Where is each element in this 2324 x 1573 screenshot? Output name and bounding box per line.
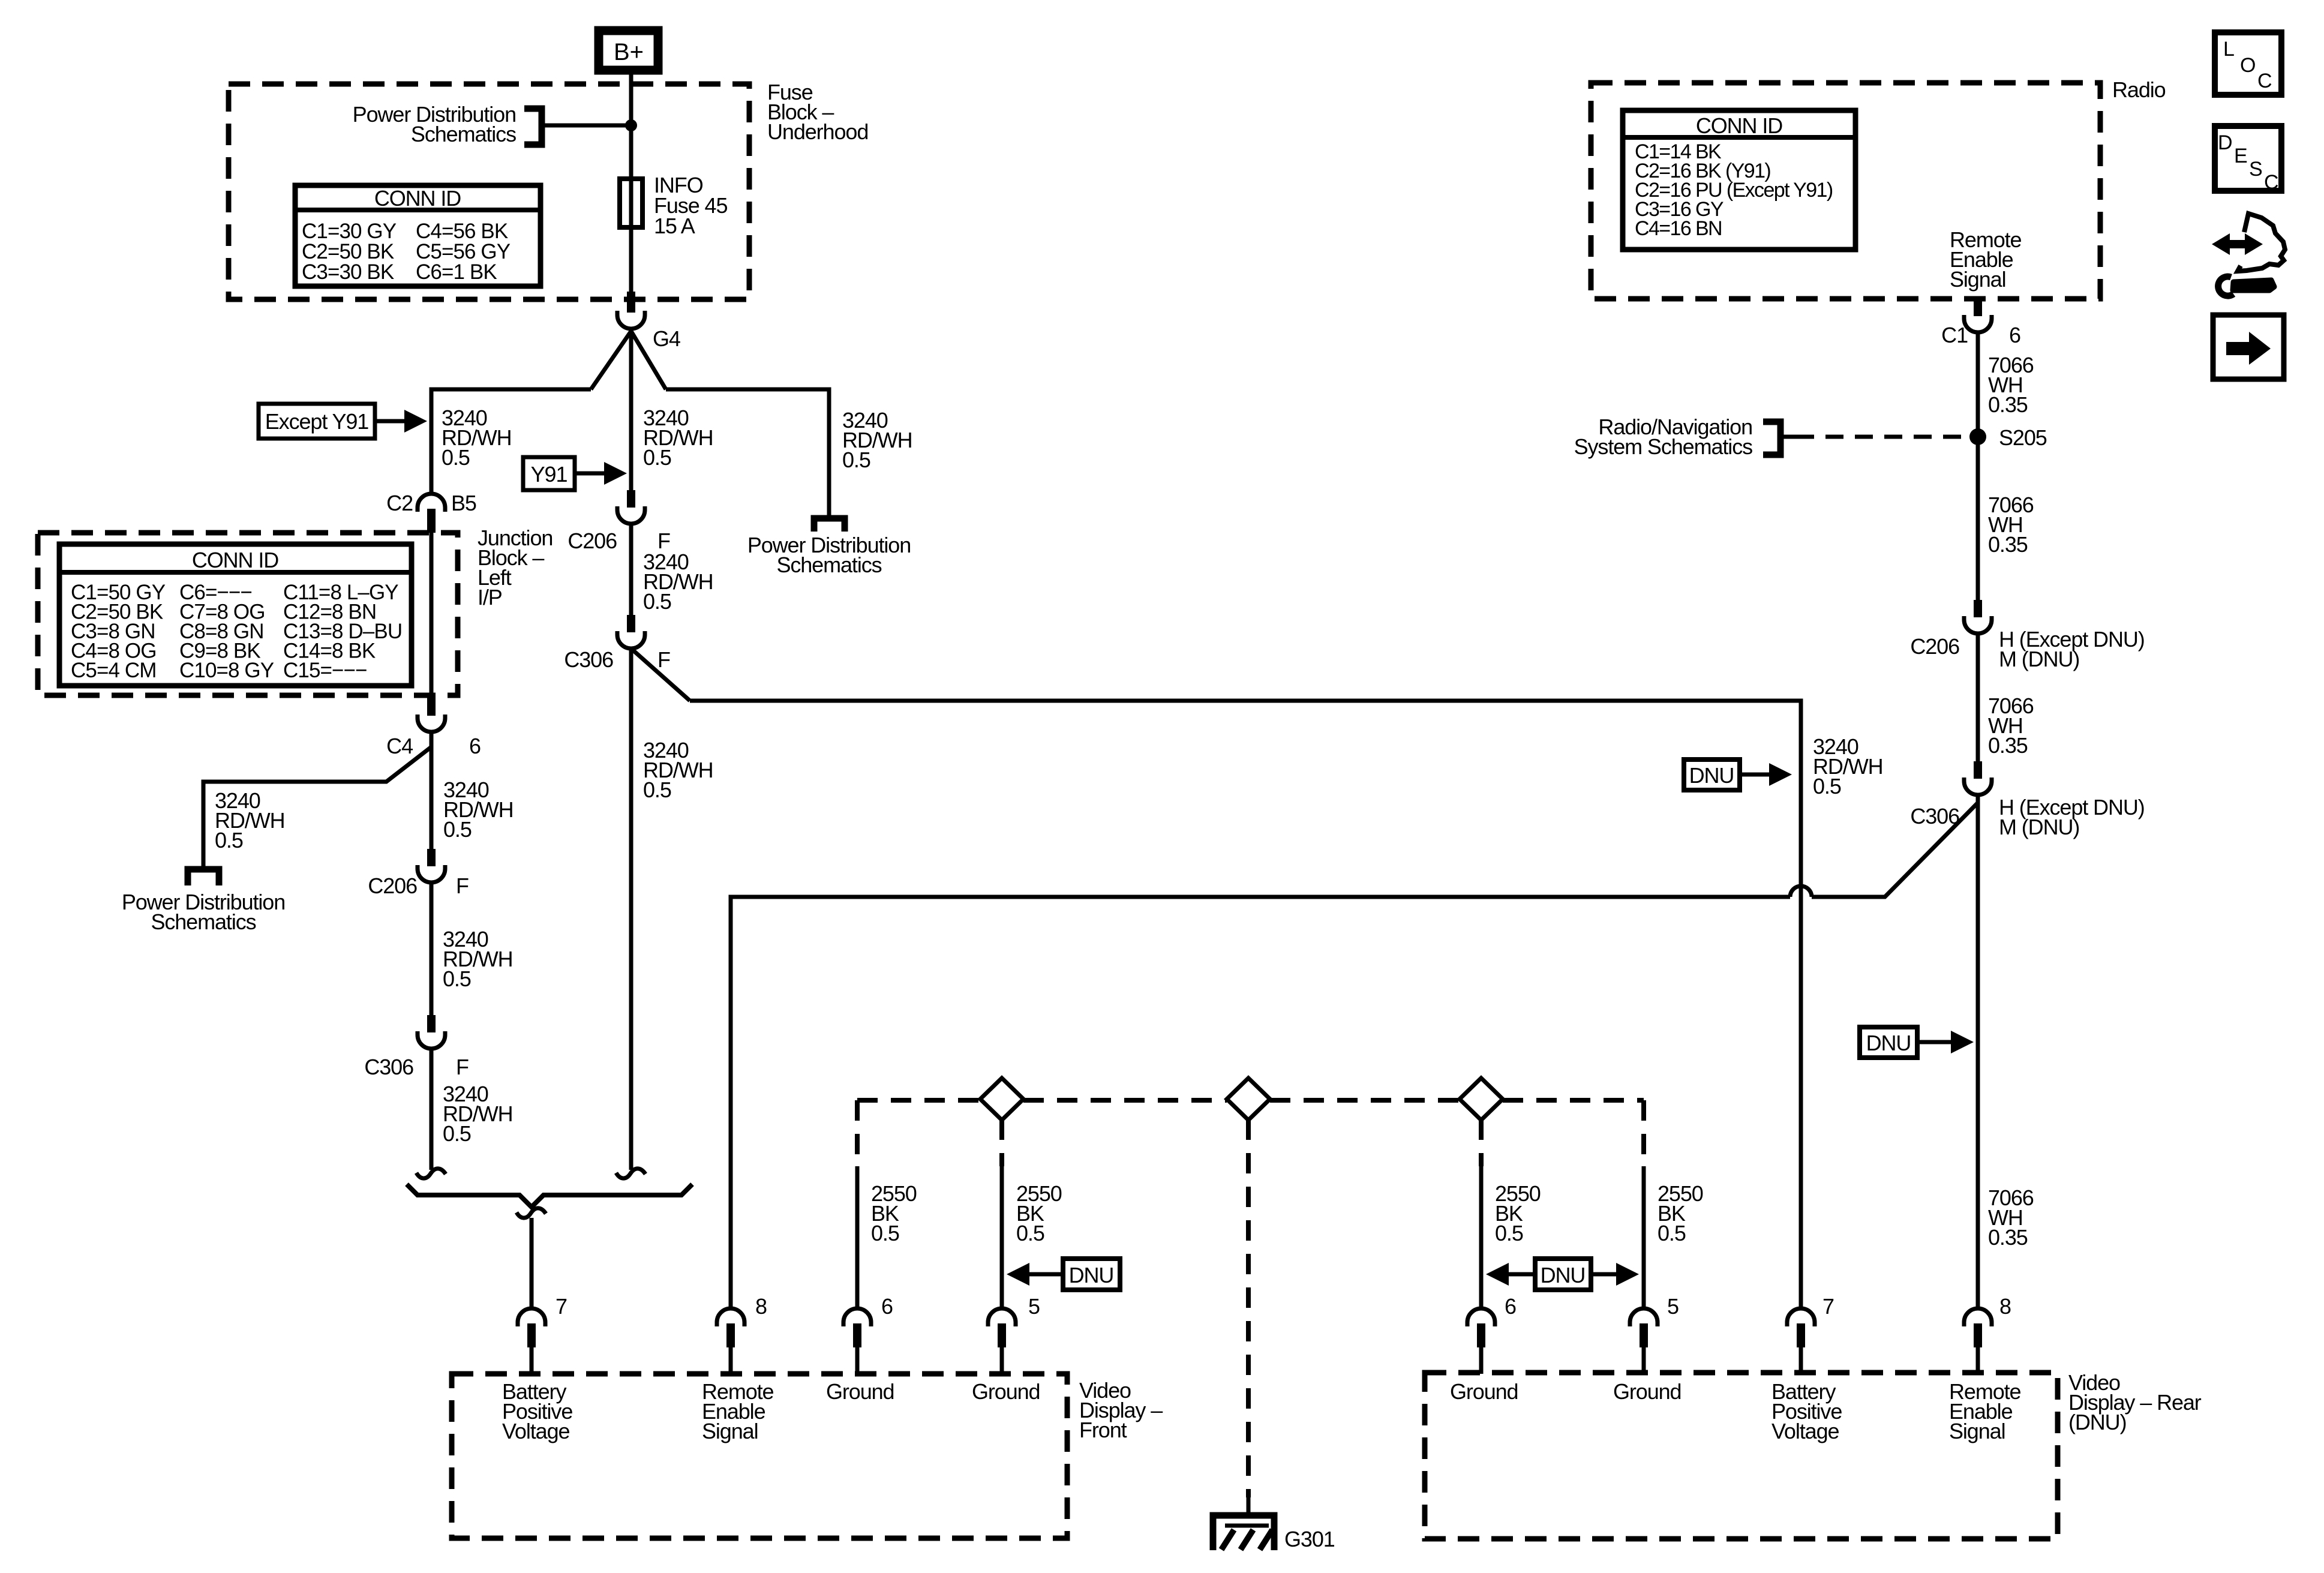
wire split diagonals xyxy=(591,331,666,389)
connector pin 8 at x=3297 xyxy=(1964,1308,1992,1347)
svg-text:C306: C306 xyxy=(364,1055,413,1079)
wire diagonal to left power distribution stub xyxy=(203,747,431,866)
splice S205 xyxy=(1969,428,1986,445)
connector C206 / F (center wire) xyxy=(617,490,645,524)
ground distribution dashed bus xyxy=(857,1098,1644,1103)
svg-text:C4: C4 xyxy=(386,734,413,758)
svg-text:DNU: DNU xyxy=(1541,1263,1586,1287)
svg-text:B+: B+ xyxy=(614,39,644,65)
svg-text:6: 6 xyxy=(881,1294,893,1319)
svg-text:CONN ID: CONN ID xyxy=(1696,113,1782,138)
connector G4 xyxy=(627,292,635,313)
connector C4 / 6 exiting junction block xyxy=(427,696,436,716)
ground G301 xyxy=(1213,1497,1335,1551)
svg-text:F: F xyxy=(657,647,670,672)
svg-text:Ground: Ground xyxy=(1613,1379,1681,1404)
svg-text:Ground: Ground xyxy=(826,1379,894,1404)
Power Distribution Schematics reference bracket xyxy=(524,109,542,145)
connector C206 / H-M (radio wire) xyxy=(1964,600,1992,634)
svg-text:C206: C206 xyxy=(368,873,417,898)
Fuse Block - Underhood dashed box xyxy=(229,84,749,299)
svg-text:C: C xyxy=(2264,171,2279,194)
wire break hook (below brace) xyxy=(517,1208,546,1218)
DNU flag with arrow (front ground) xyxy=(1007,1259,1120,1290)
svg-text:5: 5 xyxy=(1028,1294,1040,1319)
svg-text:S: S xyxy=(2249,158,2263,181)
icon DESC box xyxy=(2215,126,2281,194)
wire C306 down to pin 8 rear xyxy=(1976,795,1980,1308)
wire battery feed line to video display rear xyxy=(690,701,1801,1308)
fuse INFO Fuse 45 15A xyxy=(620,179,642,227)
arrow Y91 to wire xyxy=(575,472,605,476)
node junction dot xyxy=(625,119,637,131)
wire to Power Distribution bracket xyxy=(544,124,631,128)
svg-text:BatteryPositiveVoltage: BatteryPositiveVoltage xyxy=(502,1379,572,1443)
connector C306 / F (left wire) xyxy=(418,1015,445,1049)
svg-text:G301: G301 xyxy=(1284,1527,1335,1551)
DNU flag with arrow (battery feed wire) xyxy=(1684,760,1792,790)
svg-text:C306: C306 xyxy=(1910,804,1959,828)
connector C1 / 6 exiting radio xyxy=(1964,299,1992,332)
wire B+ down through fuse block xyxy=(629,70,633,299)
svg-text:L: L xyxy=(2223,38,2235,61)
wire crossover hop xyxy=(1790,886,1812,897)
wire brace to pin 7 (front) xyxy=(530,1218,534,1308)
Radio/Navigation System Schematics bracket xyxy=(1763,422,1780,455)
svg-text:DNU: DNU xyxy=(1689,763,1734,788)
svg-text:S205: S205 xyxy=(1999,425,2047,450)
wire right branch xyxy=(666,389,829,516)
battery feed B+ terminal xyxy=(599,31,658,70)
splice diamond 2 xyxy=(1227,1078,1270,1120)
svg-text:Ground: Ground xyxy=(972,1379,1040,1404)
wire left branch xyxy=(431,389,591,494)
connector pin 7 at x=3002 xyxy=(1787,1308,1815,1347)
wire break hook (center) xyxy=(616,1169,645,1178)
splice diamond 3 xyxy=(1460,1078,1503,1120)
svg-text:C2: C2 xyxy=(386,491,413,515)
Except Y91 flag box xyxy=(259,404,375,439)
connector C206 / F (left wire) xyxy=(418,849,445,882)
connector C306 / H-M (radio wire) xyxy=(1964,761,1992,795)
svg-text:F: F xyxy=(456,1055,469,1079)
svg-text:Except Y91: Except Y91 xyxy=(265,409,369,434)
Junction Block - Left I/P dashed box xyxy=(38,533,458,695)
svg-text:C206: C206 xyxy=(568,529,617,553)
svg-text:C206: C206 xyxy=(1910,634,1959,659)
wire C206 to C306 (left) xyxy=(430,882,434,1015)
splice brace merging wires xyxy=(407,1184,692,1207)
svg-text:C1=30 GYC2=50 BKC3=30 BK: C1=30 GYC2=50 BKC3=30 BK xyxy=(302,220,397,284)
svg-text:7: 7 xyxy=(556,1294,567,1319)
svg-text:C306: C306 xyxy=(564,647,613,672)
connector pin 5 at x=2740 xyxy=(1630,1308,1658,1347)
svg-text:Radio: Radio xyxy=(2112,77,2166,102)
svg-text:CONN ID: CONN ID xyxy=(374,186,461,211)
wire break hook (left) xyxy=(416,1169,446,1178)
svg-text:O: O xyxy=(2240,54,2256,77)
Power Distribution Schematics bracket (right branch) xyxy=(814,518,845,532)
wire diagonal C306 to battery feed line xyxy=(631,649,690,701)
svg-text:C: C xyxy=(2257,70,2272,92)
splice diamond 1 xyxy=(980,1078,1023,1120)
icon double arrow with part outline and wrench xyxy=(2212,214,2285,296)
Video Display - Rear dashed box xyxy=(1425,1373,2058,1539)
wire C4 down xyxy=(430,732,434,849)
svg-text:Radio/NavigationSystem Schemat: Radio/NavigationSystem Schematics xyxy=(1574,415,1752,459)
wire ground 1 (front pin 6) xyxy=(855,1166,860,1308)
wire remote enable line to video display front xyxy=(731,897,1790,1308)
arrow Except Y91 to wire xyxy=(375,419,406,424)
wire C306 down to splice brace (left) xyxy=(430,1049,434,1170)
DNU flag with arrow (radio wire) xyxy=(1860,1027,1974,1058)
wire ground 4 (rear pin 5) xyxy=(1642,1166,1646,1308)
connector pin 6 at x=2469 xyxy=(1467,1308,1495,1347)
svg-text:D: D xyxy=(2218,131,2233,154)
wire C1 down xyxy=(1976,332,1980,600)
svg-text:7: 7 xyxy=(1822,1294,1834,1319)
wire center column down to splice brace xyxy=(629,648,633,1170)
svg-text:5: 5 xyxy=(1667,1294,1679,1319)
CONN ID table (radio) xyxy=(1623,110,1855,250)
svg-text:C4=56 BKC5=56 GYC6=1 BK: C4=56 BKC5=56 GYC6=1 BK xyxy=(416,220,511,284)
DNU flag with two arrows (rear grounds) xyxy=(1486,1259,1639,1290)
svg-text:6: 6 xyxy=(2009,323,2020,347)
wire ground 3 (rear pin 6) xyxy=(1479,1166,1484,1308)
svg-text:CONN ID: CONN ID xyxy=(192,548,278,572)
svg-text:Ground: Ground xyxy=(1450,1379,1518,1404)
svg-text:C1=50 GYC2=50 BKC3=8 GNC4=8 OG: C1=50 GYC2=50 BKC3=8 GNC4=8 OGC5=4 CM xyxy=(71,581,166,682)
connector C2 / B5 entering junction block xyxy=(418,494,445,533)
connector pin 8 at x=1218 xyxy=(717,1308,744,1347)
svg-text:BatteryPositiveVoltage: BatteryPositiveVoltage xyxy=(1771,1379,1842,1443)
wire inside junction block xyxy=(430,532,434,696)
svg-text:E: E xyxy=(2234,145,2248,167)
wire G4 down to split xyxy=(629,329,633,490)
svg-text:G4: G4 xyxy=(653,326,680,351)
connector pin 7 at x=886 xyxy=(518,1308,545,1347)
svg-text:F: F xyxy=(456,873,469,898)
CONN ID table (junction block) xyxy=(59,544,412,686)
svg-text:8: 8 xyxy=(755,1294,767,1319)
svg-text:6: 6 xyxy=(469,734,481,758)
connector C306 / F (center wire) xyxy=(617,615,645,649)
wire C206 to C306 (center) xyxy=(629,524,633,615)
svg-text:8: 8 xyxy=(1999,1294,2011,1319)
svg-text:C1: C1 xyxy=(1941,323,1968,347)
svg-text:6: 6 xyxy=(1505,1294,1516,1319)
icon LOC box xyxy=(2215,32,2281,95)
wire ground 2 (front pin 5) xyxy=(1000,1166,1004,1308)
icon arrow box xyxy=(2213,315,2284,379)
svg-text:Y91: Y91 xyxy=(531,462,568,487)
dashed reference line to S205 xyxy=(1783,435,1796,439)
CONN ID table (fuse block) xyxy=(295,185,541,286)
connector pin 6 at x=1429 xyxy=(843,1308,871,1347)
Power Distribution Schematics bracket (bottom left) xyxy=(188,869,219,885)
Y91 flag box xyxy=(523,457,575,490)
wire C206 to C306 (radio wire) xyxy=(1976,634,1980,761)
svg-text:B5: B5 xyxy=(451,491,476,515)
svg-text:DNU: DNU xyxy=(1866,1031,1911,1055)
svg-text:DNU: DNU xyxy=(1069,1263,1114,1287)
Video Display - Front dashed box xyxy=(452,1374,1067,1538)
Radio dashed box xyxy=(1591,83,2100,299)
connector pin 5 at x=1670 xyxy=(988,1308,1016,1347)
